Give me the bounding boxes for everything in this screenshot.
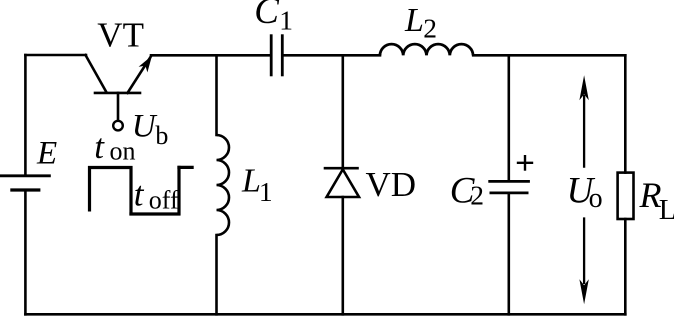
svg-text:C: C: [254, 0, 280, 32]
wire C2 branch upper: [507, 55, 510, 181]
svg-text:L: L: [404, 2, 424, 39]
wire left upper (to battery): [24, 55, 27, 175]
svg-text:on: on: [110, 137, 136, 166]
transistor VT base terminal circle: [113, 121, 123, 131]
svg-text:E: E: [36, 136, 57, 172]
svg-text:2: 2: [470, 179, 484, 210]
label L1: [241, 163, 273, 207]
diode VD: [325, 168, 359, 197]
capacitor C2 plates: [488, 181, 530, 193]
inductor L1 coil: [217, 135, 230, 235]
label C1: [254, 0, 293, 36]
label t_on: [94, 127, 135, 166]
wire top-right (L2 to output node): [473, 54, 625, 57]
control pulse waveform: [88, 166, 194, 216]
svg-text:t: t: [134, 175, 145, 214]
svg-text:U: U: [132, 108, 158, 144]
label Ub: [132, 108, 169, 150]
label t_off: [134, 175, 179, 215]
wire right lower (RL to bottom rail): [624, 219, 627, 314]
capacitor C1 plates: [271, 34, 282, 76]
output voltage arrow Uo (up arrow): [583, 95, 585, 168]
svg-text:o: o: [589, 183, 603, 214]
svg-text:1: 1: [279, 5, 293, 36]
svg-text:t: t: [94, 127, 105, 166]
wire bottom rail: [25, 313, 625, 316]
transistor Q1 VT: [86, 55, 151, 121]
label L2: [404, 2, 437, 43]
svg-text:off: off: [149, 186, 179, 215]
inductor L2 coil: [380, 44, 473, 55]
wire left lower (battery to bottom rail): [24, 191, 27, 314]
svg-text:L: L: [659, 194, 674, 226]
wire top middle (VT collector to C1): [151, 54, 271, 57]
wire L1 branch lower: [215, 235, 218, 314]
wire L1 branch upper: [215, 55, 218, 135]
battery E: [0, 176, 51, 190]
wire C2 branch lower: [507, 193, 510, 314]
output voltage arrow Uo (down arrow): [583, 217, 585, 284]
label C2: [450, 170, 484, 211]
wire right upper (to RL): [624, 55, 627, 172]
svg-text:VD: VD: [366, 165, 417, 204]
label RL: [639, 175, 674, 226]
wire top-left (E to VT emitter): [25, 54, 86, 57]
wire top (C1 to L2): [282, 54, 380, 57]
svg-text:VT: VT: [97, 16, 144, 55]
wire VD branch upper: [341, 55, 344, 168]
svg-text:2: 2: [423, 13, 437, 44]
svg-text:1: 1: [259, 176, 273, 207]
label Uo: [567, 170, 603, 213]
transistor VT emitter arrowhead: [139, 56, 152, 73]
C2 polarity plus sign: [517, 155, 533, 171]
resistor RL: [618, 173, 634, 219]
wire VD branch lower: [341, 197, 344, 314]
svg-text:b: b: [155, 121, 168, 150]
